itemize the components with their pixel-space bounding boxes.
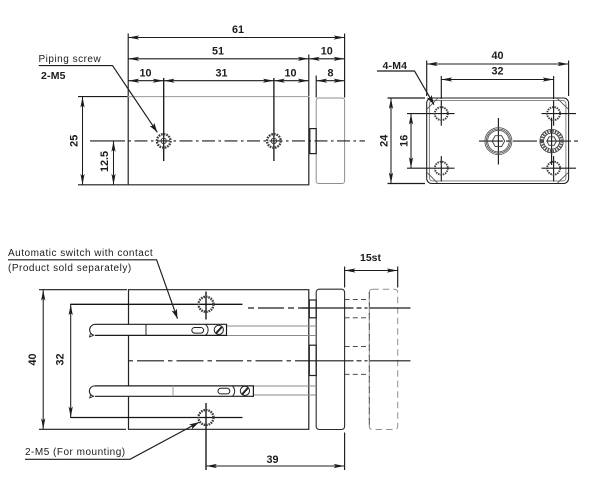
center plug hole (485, 118, 512, 165)
hidden center bushing outline (dashed) (345, 345, 370, 347)
body outline (end view) (427, 98, 569, 184)
dim 40 (bottom view) (42, 290, 44, 430)
dim 51 (128, 58, 309, 60)
groove lower (to body edge) (253, 385, 316, 387)
dim 61 (128, 37, 344, 39)
dim 24 (end view) (390, 98, 392, 184)
mounting hole bottom crosshair (205, 403, 207, 470)
svg-text:10: 10 (284, 68, 296, 80)
dim 25 (82, 97, 84, 185)
dim 10 (row3 left) (128, 80, 164, 82)
extension lines (top view dims) (127, 34, 129, 97)
dim 8 (316, 80, 344, 82)
svg-text:Piping screw: Piping screw (39, 54, 102, 65)
extension lines (end view dims) (426, 61, 428, 97)
extension lines (bottom view) (39, 289, 127, 291)
svg-text:10: 10 (139, 68, 151, 80)
svg-text:40: 40 (27, 353, 39, 365)
leader (automatic switch) (8, 260, 178, 319)
piping hole 1 crosshair (163, 78, 165, 161)
rod end hole (right) (540, 118, 563, 166)
svg-text:25: 25 (69, 135, 81, 147)
ghost plate (extended, dashed) (369, 289, 397, 429)
leader (2-M5 mounting) (25, 422, 199, 459)
rod bushing (top view) (310, 129, 316, 154)
piping hole 2 crosshair (273, 78, 275, 161)
bushing middle (309, 345, 316, 375)
switch body end arc (upper) (206, 325, 209, 336)
dim 31 (164, 80, 274, 82)
svg-text:24: 24 (379, 135, 391, 147)
svg-text:Automatic switch with contact: Automatic switch with contact (8, 248, 153, 259)
svg-text:32: 32 (55, 353, 67, 365)
dim 10 (row3 right) (274, 80, 309, 82)
switch body end arc (lower) (233, 386, 235, 396)
svg-text:2-M5 (For mounting): 2-M5 (For mounting) (25, 447, 126, 458)
svg-text:51: 51 (212, 46, 224, 58)
piping hole 2 (267, 134, 281, 148)
mounting hole top (2-M5) (199, 297, 214, 312)
svg-text:40: 40 (491, 50, 503, 62)
clamp screw (lower) (240, 386, 249, 395)
svg-text:4-M4: 4-M4 (383, 60, 408, 72)
rod 1 axis (248, 307, 309, 309)
svg-text:10: 10 (321, 46, 333, 58)
dim 32 (end view) (441, 79, 553, 81)
dim 12.5 (113, 141, 115, 185)
body (top view) (128, 97, 309, 185)
M4 hole top-left (407, 100, 455, 125)
svg-text:8: 8 (327, 68, 333, 80)
body (bottom view) (129, 290, 309, 430)
clamp screw (upper) (214, 325, 223, 334)
svg-text:31: 31 (215, 68, 227, 80)
hidden rod 1 outline (dashed) (345, 299, 370, 301)
dim 15st (345, 270, 398, 272)
dim 10 (right of 51) (309, 58, 345, 60)
M4 hole top-right (542, 100, 577, 125)
svg-text:12.5: 12.5 (99, 151, 111, 172)
groove upper (to body edge) (227, 325, 317, 327)
svg-text:15st: 15st (360, 252, 382, 264)
mounting hole top crosshair (205, 292, 207, 320)
dim 16 (end view) (410, 114, 412, 169)
switch rail upper (90, 324, 227, 337)
indicator window (lower) (218, 388, 230, 394)
plate (bottom view) (316, 289, 344, 429)
corner chamfer marks (427, 99, 437, 109)
center axis (bottom view) (129, 360, 309, 362)
inner outline (end view) (429, 101, 566, 181)
dim 39 (206, 465, 345, 467)
piping hole 1 (2-M5) (157, 134, 171, 148)
leader 4-M4 (377, 71, 434, 105)
horizontal centerline (end view) (479, 140, 578, 142)
ghost plate left edge (dark dashes) (368, 292, 370, 427)
svg-text:2-M5: 2-M5 (41, 70, 66, 82)
mounting hole bottom (2-M5) (199, 410, 214, 425)
bushing upper (309, 300, 316, 318)
svg-text:16: 16 (399, 135, 411, 147)
svg-text:(Product sold separately): (Product sold separately) (8, 263, 132, 274)
centerline (top view) (112, 140, 365, 142)
svg-text:39: 39 (266, 454, 278, 466)
indicator window (upper) (192, 328, 204, 334)
dim 32 (bottom view) (70, 304, 72, 417)
plate (top view) (316, 98, 344, 184)
svg-text:32: 32 (491, 66, 503, 78)
svg-text:61: 61 (232, 24, 244, 36)
M4 hole bottom-right (542, 156, 577, 181)
dim 40 (end view) (427, 63, 569, 65)
leader (piping screw) (39, 66, 158, 133)
switch rail lower (89, 386, 253, 398)
M4 hole bottom-left (407, 156, 455, 181)
